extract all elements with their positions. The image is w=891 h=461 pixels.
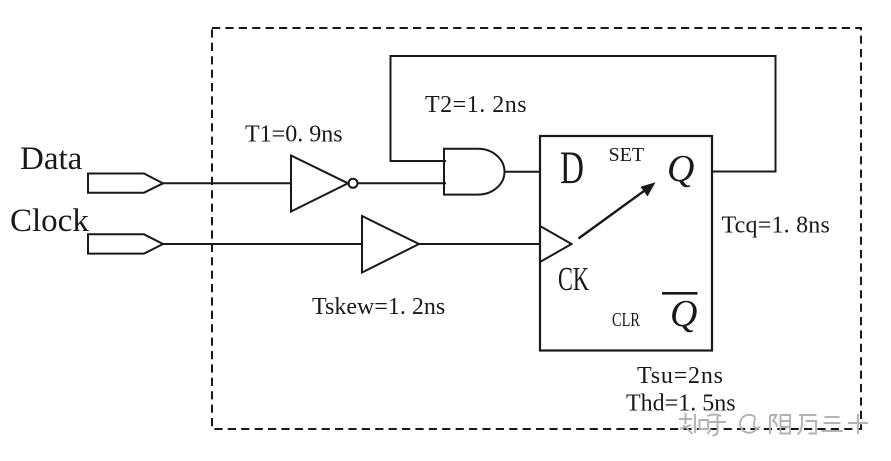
- feedback wire top horizontal: [391, 55, 776, 57]
- wire into AND top input: [390, 160, 447, 162]
- svg-text:Tskew=1. 2ns: Tskew=1. 2ns: [312, 294, 445, 320]
- svg-text:Q: Q: [670, 293, 697, 335]
- wire Data to inverter: [163, 182, 291, 184]
- input port Clock: [88, 234, 163, 253]
- wire inverter to AND gate: [358, 182, 447, 184]
- input port Data: [88, 174, 163, 193]
- flip-flop clock edge triangle: [540, 226, 572, 262]
- arrow inside flip-flop: [579, 182, 656, 238]
- feedback wire right vertical: [775, 55, 777, 172]
- inverter U1: [291, 156, 348, 212]
- svg-text:Clock: Clock: [10, 203, 89, 239]
- AND gate U3: [444, 149, 505, 195]
- wire Q output: [712, 171, 777, 173]
- wire buffer to flip-flop clock: [419, 243, 540, 245]
- buffer U2: [362, 216, 419, 273]
- wire Clock to buffer: [163, 243, 362, 245]
- overline of Qbar: [662, 292, 698, 295]
- feedback wire left vertical: [390, 55, 392, 162]
- svg-text:Thd=1. 5ns: Thd=1. 5ns: [626, 391, 736, 417]
- dashed boundary frame: [212, 28, 861, 429]
- svg-text:Q: Q: [667, 148, 694, 190]
- svg-text:T1=0. 9ns: T1=0. 9ns: [245, 122, 343, 148]
- wire AND output to flip-flop D: [505, 171, 542, 173]
- svg-text:Data: Data: [20, 141, 83, 177]
- svg-text:CLR: CLR: [612, 310, 640, 331]
- svg-text:Tsu=2ns: Tsu=2ns: [637, 363, 724, 389]
- svg-text:SET: SET: [609, 144, 645, 166]
- D flip-flop U4 body: [540, 136, 712, 351]
- svg-text:CK: CK: [558, 261, 589, 298]
- inverter U1 bubble: [349, 179, 358, 188]
- svg-text:D: D: [560, 142, 584, 194]
- svg-text:Tcq=1. 8ns: Tcq=1. 8ns: [722, 213, 831, 239]
- watermark Zhihu @yinli30: [679, 413, 868, 436]
- svg-text:T2=1. 2ns: T2=1. 2ns: [425, 92, 527, 118]
